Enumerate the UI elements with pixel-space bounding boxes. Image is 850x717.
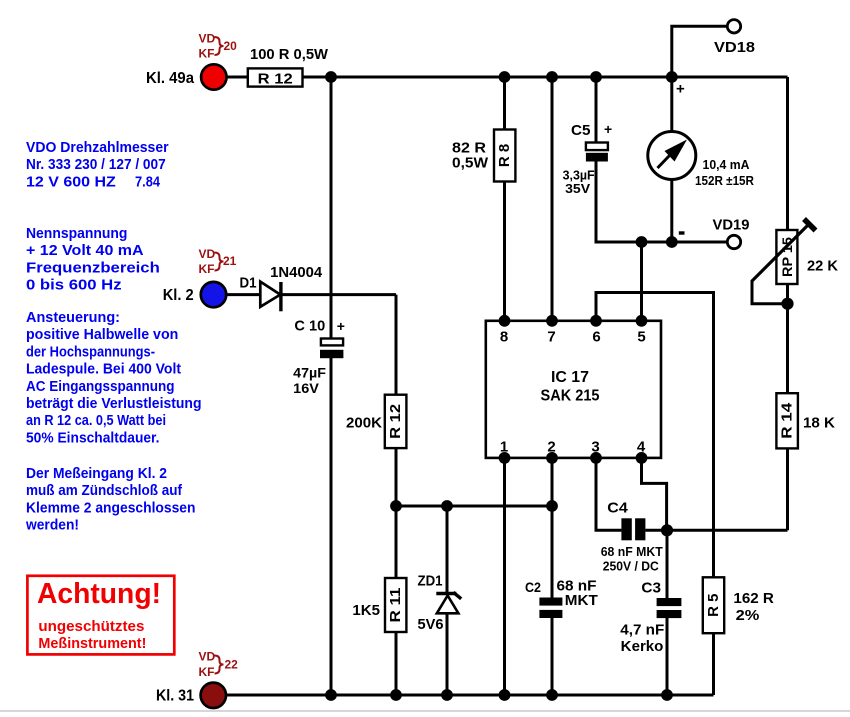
svg-text:16V: 16V bbox=[293, 380, 319, 396]
wire 200K R12 to node bbox=[395, 448, 398, 506]
svg-text:IC 17: IC 17 bbox=[551, 369, 589, 386]
svg-text:152R ±15R: 152R ±15R bbox=[695, 173, 755, 188]
wire pin 2 to C2 bbox=[551, 458, 554, 598]
svg-text:162 R: 162 R bbox=[733, 590, 774, 607]
svg-text:AC Eingangsspannung: AC Eingangsspannung bbox=[26, 379, 175, 395]
resistor R14 18K bbox=[776, 393, 835, 448]
wire C10 to bottom rail bbox=[330, 358, 333, 696]
resistor R8 bbox=[452, 130, 515, 182]
svg-text:KF: KF bbox=[199, 262, 215, 276]
svg-text:22 K: 22 K bbox=[807, 258, 838, 275]
svg-text:ZD1: ZD1 bbox=[418, 573, 443, 590]
wire Kl.49a to R12 bbox=[226, 76, 248, 79]
svg-text:47µF: 47µF bbox=[293, 364, 326, 380]
pin 8 bbox=[499, 315, 511, 346]
warning box Achtung bbox=[27, 576, 174, 655]
terminal Kl. 31 bbox=[156, 683, 226, 708]
svg-text:0,5W: 0,5W bbox=[452, 155, 489, 172]
capacitor C2 68nF MKT bbox=[525, 578, 598, 619]
wire C3 to bottom rail bbox=[666, 618, 669, 695]
svg-text:R 14: R 14 bbox=[779, 402, 796, 439]
window edge line bbox=[0, 710, 850, 712]
resistor R11 1K5 bbox=[352, 578, 406, 632]
wire C4 right to R14 bbox=[645, 529, 787, 532]
note: VDO Drehzahlmesser info text bbox=[26, 140, 169, 190]
wire top rail to pin 7 bbox=[551, 77, 554, 321]
wire R11 to bottom rail bbox=[395, 632, 398, 695]
svg-text:R 12: R 12 bbox=[387, 404, 404, 439]
svg-text:Kl. 49a: Kl. 49a bbox=[146, 70, 194, 87]
terminal Kl. 49a bbox=[146, 64, 227, 89]
node 200K/ZD1 row junctions bbox=[390, 500, 558, 512]
svg-text:1K5: 1K5 bbox=[352, 602, 380, 619]
svg-text:Nr. 333 230 / 127 / 007: Nr. 333 230 / 127 / 007 bbox=[26, 157, 166, 173]
note: Nennspannung text bbox=[26, 226, 160, 294]
svg-text:RP 15: RP 15 bbox=[779, 237, 795, 277]
svg-text:an R 12 ca. 0,5 Watt bei: an R 12 ca. 0,5 Watt bei bbox=[26, 413, 166, 429]
svg-text:50% Einschaltdauer.: 50% Einschaltdauer. bbox=[26, 430, 160, 446]
svg-text:35V: 35V bbox=[565, 181, 590, 196]
svg-text:Meßinstrument!: Meßinstrument! bbox=[38, 635, 146, 652]
wire minus net to pin 5 bbox=[640, 242, 643, 321]
wire top rail to meter bbox=[670, 77, 673, 132]
svg-text:werden!: werden! bbox=[25, 518, 79, 534]
svg-text:2: 2 bbox=[547, 439, 555, 456]
svg-text:muß am Zündschloß auf: muß am Zündschloß auf bbox=[26, 483, 182, 499]
pin 7 bbox=[546, 315, 558, 346]
svg-text:Frequenzbereich: Frequenzbereich bbox=[26, 260, 160, 276]
svg-text:beträgt die Verlustleistung: beträgt die Verlustleistung bbox=[26, 396, 202, 412]
wire top rail to C5 bbox=[595, 77, 598, 143]
wire meter to minus net bbox=[670, 180, 673, 243]
svg-text:7.84: 7.84 bbox=[135, 174, 160, 190]
svg-text:C3: C3 bbox=[641, 580, 661, 597]
svg-text:R 8: R 8 bbox=[496, 144, 513, 167]
svg-text:C4: C4 bbox=[607, 500, 628, 517]
capacitor C4 68nF MKT 250V bbox=[601, 500, 663, 574]
svg-text:2%: 2% bbox=[736, 607, 760, 624]
svg-text:1N4004: 1N4004 bbox=[270, 264, 323, 281]
wire pin 1 to bottom rail bbox=[503, 458, 506, 695]
zener diode ZD1 5V6 bbox=[418, 573, 462, 634]
svg-text:positive Halbwelle von: positive Halbwelle von bbox=[26, 327, 178, 343]
svg-text:KF: KF bbox=[199, 665, 215, 679]
node top rail junctions bbox=[325, 71, 678, 83]
svg-text:VD18: VD18 bbox=[714, 39, 755, 56]
terminal VD19 bbox=[713, 217, 750, 249]
label VD/KF 22 bbox=[199, 650, 239, 680]
svg-text:Kl. 2: Kl. 2 bbox=[163, 287, 194, 304]
wire Kl.49a junction down to C10 bbox=[330, 77, 333, 339]
svg-text:+: + bbox=[676, 81, 685, 98]
svg-text:Klemme 2 angeschlossen: Klemme 2 angeschlossen bbox=[26, 500, 196, 516]
svg-text:VD: VD bbox=[199, 247, 216, 261]
svg-text:VD: VD bbox=[199, 32, 216, 46]
potentiometer RP15 22K bbox=[752, 219, 838, 284]
wire pin 4 to C4 net bbox=[642, 458, 667, 530]
svg-text:Achtung!: Achtung! bbox=[37, 578, 161, 610]
pin 6 bbox=[590, 315, 602, 346]
pin 2 bbox=[546, 439, 558, 464]
svg-text:3: 3 bbox=[591, 439, 599, 456]
svg-text:C5: C5 bbox=[571, 122, 591, 139]
label VD/KF 21 bbox=[199, 247, 237, 276]
svg-text:C2: C2 bbox=[525, 579, 541, 595]
svg-text:4,7 nF: 4,7 nF bbox=[620, 622, 664, 639]
pin 4 bbox=[636, 439, 648, 464]
svg-text:10,4 mA: 10,4 mA bbox=[703, 157, 751, 172]
wire pin 6 to R5 bbox=[596, 293, 714, 578]
resistor R12 200K bbox=[346, 395, 406, 448]
svg-text:6: 6 bbox=[592, 329, 600, 346]
svg-text:VDO Drehzahlmesser: VDO Drehzahlmesser bbox=[26, 140, 169, 156]
note: Ansteuerung text bbox=[26, 310, 202, 446]
svg-text:200K: 200K bbox=[346, 415, 382, 432]
node minus net junctions bbox=[636, 236, 678, 248]
svg-text:+: + bbox=[604, 121, 612, 137]
svg-text:21: 21 bbox=[223, 254, 237, 268]
wire node to pin2 line bbox=[396, 505, 552, 508]
svg-text:5: 5 bbox=[637, 329, 645, 346]
svg-text:Der Meßeingang Kl. 2: Der Meßeingang Kl. 2 bbox=[26, 466, 167, 482]
note: Messeingang text bbox=[25, 466, 195, 534]
wire R5 to bottom rail bbox=[712, 633, 715, 695]
svg-text:Ansteuerung:: Ansteuerung: bbox=[26, 310, 120, 326]
terminal VD18 bbox=[714, 20, 755, 56]
svg-text:1: 1 bbox=[500, 439, 508, 456]
label minus bbox=[679, 231, 685, 234]
svg-text:VD: VD bbox=[199, 650, 216, 664]
svg-text:12 V 600 HZ: 12 V 600 HZ bbox=[26, 174, 116, 190]
node RP15 bottom junction bbox=[781, 298, 793, 310]
svg-text:250V / DC: 250V / DC bbox=[603, 560, 659, 574]
svg-text:18 K: 18 K bbox=[803, 415, 835, 432]
svg-text:KF: KF bbox=[199, 47, 215, 61]
capacitor C10 47uF bbox=[293, 318, 345, 397]
svg-text:8: 8 bbox=[500, 329, 508, 346]
wire RP15 wiper to bottom terminal bbox=[752, 280, 788, 304]
node bottom rail junctions bbox=[325, 689, 673, 701]
wire VD18 stub bbox=[672, 26, 728, 77]
pin 1 bbox=[499, 439, 511, 464]
wire ZD1 to bottom rail bbox=[446, 614, 449, 695]
wire node to R11 bbox=[395, 506, 398, 578]
wire R8 to pin 8 bbox=[503, 182, 506, 321]
wire RP15 to R14 bbox=[786, 284, 789, 393]
wire C2 to bottom rail bbox=[551, 618, 554, 695]
wire minus net to VD19 bbox=[642, 241, 728, 244]
wire pin 3 to C4 bbox=[596, 458, 621, 530]
resistor R5 162R bbox=[703, 577, 774, 633]
pin 3 bbox=[590, 439, 602, 464]
meter M1 10,4mA bbox=[648, 132, 755, 189]
svg-text:4: 4 bbox=[637, 439, 646, 456]
svg-text:Nennspannung: Nennspannung bbox=[26, 226, 127, 242]
wire top rail to RP15 bbox=[786, 77, 789, 230]
svg-text:100 R 0,5W: 100 R 0,5W bbox=[250, 46, 329, 63]
terminal Kl. 2 bbox=[163, 282, 227, 307]
wire bottom rail bbox=[226, 694, 714, 697]
capacitor C3 4,7nF Kerko bbox=[620, 580, 681, 656]
svg-text:ungeschütztes: ungeschütztes bbox=[38, 618, 144, 635]
wire Kl.2 to D1 bbox=[226, 293, 260, 296]
IC U17 SAK215 bbox=[486, 321, 661, 458]
svg-text:+ 12 Volt 40 mA: + 12 Volt 40 mA bbox=[26, 243, 144, 259]
wire down to 200K R12 bbox=[395, 295, 398, 395]
svg-text:der Hochspannungs-: der Hochspannungs- bbox=[26, 344, 155, 360]
svg-text:5V6: 5V6 bbox=[418, 616, 444, 633]
resistor R12 100R 0,5W bbox=[248, 46, 329, 88]
svg-text:Kerko: Kerko bbox=[621, 638, 664, 655]
wire C5 to minus net bbox=[596, 161, 642, 242]
capacitor C5 bbox=[563, 121, 613, 196]
svg-text:20: 20 bbox=[224, 39, 238, 53]
svg-text:68 nF MKT: 68 nF MKT bbox=[601, 545, 663, 559]
svg-text:R 5: R 5 bbox=[705, 594, 722, 617]
svg-text:MKT: MKT bbox=[565, 592, 598, 609]
label VD/KF 20 bbox=[199, 32, 238, 61]
svg-text:Ladespule. Bei 400 Volt: Ladespule. Bei 400 Volt bbox=[26, 362, 181, 378]
pin 5 bbox=[636, 315, 648, 346]
svg-text:0 bis 600 Hz: 0 bis 600 Hz bbox=[26, 278, 122, 294]
wire D1 to 200K R12 bbox=[281, 293, 396, 296]
svg-text:C 10: C 10 bbox=[294, 318, 325, 335]
svg-text:R 12: R 12 bbox=[258, 71, 293, 88]
svg-text:Kl. 31: Kl. 31 bbox=[156, 688, 194, 705]
wire node to ZD1 bbox=[446, 506, 449, 592]
svg-text:+: + bbox=[337, 318, 345, 334]
svg-text:VD19: VD19 bbox=[713, 217, 750, 234]
svg-text:R 11: R 11 bbox=[387, 588, 404, 623]
wire top rail bbox=[303, 76, 788, 79]
diode D1 1N4004 bbox=[240, 264, 323, 311]
svg-text:SAK 215: SAK 215 bbox=[541, 388, 600, 405]
svg-text:7: 7 bbox=[547, 329, 555, 346]
wire top rail to R8 bbox=[503, 77, 506, 130]
wire C4 net to C3 bbox=[666, 530, 669, 598]
svg-text:D1: D1 bbox=[240, 275, 257, 292]
svg-text:22: 22 bbox=[225, 658, 239, 672]
node C4 net junction bbox=[661, 524, 673, 536]
wire R14 to C4 net bbox=[786, 448, 789, 530]
